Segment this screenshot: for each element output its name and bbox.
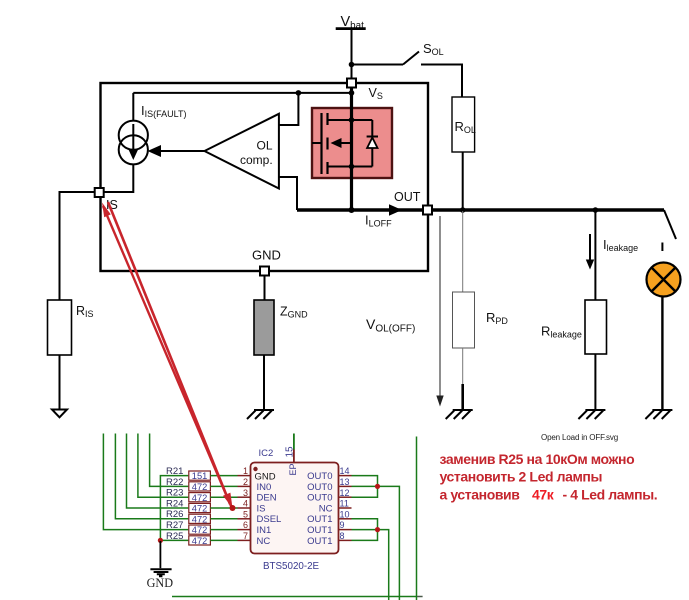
svg-text:47к: 47к (532, 487, 555, 503)
node VS square (347, 79, 356, 88)
svg-text:4: 4 (243, 499, 248, 509)
SCHEMATIC-TOP (48, 14, 681, 442)
svg-text:472: 472 (192, 493, 208, 503)
wire R24 to pin4 (210, 507, 237, 509)
svg-text:472: 472 (192, 536, 208, 546)
pin name OUT0 c (307, 493, 332, 504)
svg-text:R22: R22 (166, 477, 183, 488)
svg-text:12: 12 (340, 488, 350, 498)
svg-text:Open Load in OFF.svg: Open Load in OFF.svg (541, 433, 618, 442)
pin name GND (255, 472, 276, 483)
pin number 6 (243, 520, 248, 530)
note line 3 (440, 487, 658, 503)
pin name IS (257, 503, 266, 514)
svg-text:IN0: IN0 (257, 482, 272, 493)
wire GND to ZGND (264, 276, 266, 301)
wire IS to RIS (60, 192, 95, 300)
svg-text:OUT: OUT (394, 190, 421, 204)
resistor ROL (452, 97, 475, 152)
junction OUT0 net (375, 484, 380, 489)
body diode triangle (367, 138, 377, 149)
op-amp OL comparator (205, 114, 279, 189)
resistor R27 (189, 525, 211, 534)
current source IIS(FAULT) label (141, 103, 186, 119)
junction VS/OUT (349, 207, 355, 213)
wire to switch SOL (352, 64, 404, 66)
wire OUT to RPD thin (462, 211, 464, 292)
pin number 8 (340, 531, 345, 541)
resistor R23 label (166, 488, 183, 499)
pin name IN0 (257, 482, 272, 493)
wire R25 to pin7 (210, 539, 237, 541)
wire OUT to Rleakage (594, 210, 596, 300)
svg-text:ZGND: ZGND (280, 305, 308, 320)
pin number 3 (243, 488, 248, 498)
svg-text:OUT1: OUT1 (307, 514, 332, 525)
pin name NC right (319, 503, 333, 514)
current Ileakage arrowhead (586, 260, 594, 270)
pin name NC left (257, 536, 271, 547)
svg-text:R27: R27 (166, 520, 183, 531)
lamp cross (652, 268, 675, 291)
impedance ZGND label (280, 305, 308, 320)
junction OUT1 net (375, 527, 380, 532)
svg-text:NC: NC (257, 536, 271, 547)
svg-text:R21: R21 (166, 466, 183, 477)
resistor RIS label (76, 304, 94, 319)
voltage VOL(OFF) arrowhead (436, 396, 443, 407)
body diode cathode bar (367, 136, 378, 138)
svg-text:151: 151 (192, 471, 208, 481)
junction pin4 red dot (230, 505, 236, 511)
transistor body wire (340, 142, 352, 144)
pin number 4 (243, 499, 248, 509)
svg-text:R26: R26 (166, 509, 183, 520)
resistor Rleakage (585, 300, 607, 354)
pin name OUT1 c (307, 536, 332, 547)
red arrowhead at IS (102, 203, 111, 218)
red arrowhead at pin4 (223, 493, 233, 508)
current Ileakage label (603, 237, 638, 253)
wire OUT0 tie pins 14-12 (352, 476, 378, 498)
pin number 1 (243, 466, 248, 476)
pin 12 stub (339, 496, 352, 498)
wire GND net R21/R25 (160, 476, 188, 541)
resistor RPD label (486, 310, 508, 326)
svg-text:13: 13 (340, 477, 350, 487)
svg-text:10: 10 (340, 509, 350, 519)
current source arrow (132, 124, 134, 151)
resistor Rleakage label (541, 324, 582, 340)
pin 7 stub (238, 539, 251, 541)
switch lamp contact stub (661, 243, 663, 252)
wire bus net R22 (150, 434, 189, 487)
note line 2 (440, 469, 603, 485)
wire bottom end segment (417, 596, 423, 598)
resistor R26 (189, 514, 211, 523)
transistor gate stub (312, 142, 322, 144)
current source circle lower (119, 135, 148, 164)
wire ROL to OUT line (462, 152, 464, 210)
pin number 12 (340, 488, 350, 498)
pin 5 stub (238, 518, 251, 520)
svg-text:RIS: RIS (76, 304, 94, 319)
resistor R23 (189, 493, 211, 502)
svg-text:OL: OL (257, 139, 273, 153)
supply Vbat label (341, 14, 365, 31)
junction GND net (158, 538, 163, 543)
svg-text:9: 9 (340, 520, 345, 530)
wire lamp to ground (661, 297, 663, 411)
pin 14 stub (339, 475, 352, 477)
resistor R27 label (166, 520, 183, 531)
red arrow up to node IS (103, 206, 233, 510)
svg-text:R25: R25 (166, 531, 183, 542)
pin name OUT1 a (307, 514, 332, 525)
label GND pin (252, 248, 281, 263)
svg-text:DSEL: DSEL (257, 514, 282, 525)
pin number 11 (340, 499, 349, 509)
pin number 10 (340, 509, 350, 519)
svg-text:5: 5 (243, 509, 248, 519)
junction drain/VS (349, 117, 355, 123)
wire OUT1 tie pins 10-8 (352, 519, 378, 541)
svg-text:IS: IS (257, 503, 266, 514)
voltage VOL(OFF) label (366, 316, 415, 335)
svg-text:GND: GND (252, 248, 281, 263)
svg-text:OUT0: OUT0 (307, 493, 332, 504)
transistor source wire (328, 166, 373, 168)
ground earth lamp (645, 410, 672, 419)
pin 15 number label (285, 446, 296, 458)
svg-text:а установив: а установив (440, 487, 521, 503)
svg-text:R24: R24 (166, 498, 183, 509)
svg-text:14: 14 (340, 466, 350, 476)
label IS (106, 198, 118, 212)
pin 10 stub (339, 518, 352, 520)
svg-text:NC: NC (319, 503, 333, 514)
switch lamp blade (664, 210, 676, 239)
note line 1 (440, 451, 635, 467)
resistor RPD (453, 292, 475, 348)
wire bus net R26 (115, 434, 188, 519)
pin 2 stub (238, 485, 251, 487)
node OUT square (423, 206, 432, 215)
resistor R22 label (166, 477, 183, 488)
svg-text:2: 2 (243, 477, 248, 487)
wire internal top rail (133, 92, 351, 94)
ground earth ZGND (247, 410, 274, 419)
resistor R21 (189, 471, 211, 480)
pin 1 stub (238, 475, 251, 477)
pin 9 stub (339, 529, 352, 531)
pin name DSEL (257, 514, 282, 525)
svg-text:IIS(FAULT): IIS(FAULT) (141, 103, 186, 119)
impedance ZGND (254, 300, 274, 355)
wire R23 to pin3 (210, 496, 237, 498)
switch SOL blade (403, 52, 419, 65)
resistor R26 label (166, 509, 183, 520)
junction source/VS (349, 164, 355, 170)
pin 3 stub (238, 496, 251, 498)
svg-text:- 4 Led лампы.: - 4 Led лампы. (563, 487, 658, 503)
pin number 5 (243, 509, 248, 519)
ground earth Rleakage (578, 410, 605, 419)
transistor drain wire (328, 119, 373, 121)
svg-text:установить 2 Led лампы: установить 2 Led лампы (440, 469, 603, 485)
current source arrowhead (129, 150, 139, 161)
wire RIS to ground (59, 355, 61, 410)
switch SOL label (423, 41, 444, 57)
svg-text:ILOFF: ILOFF (365, 213, 392, 229)
ground GND symbol (150, 569, 171, 576)
svg-text:GND: GND (147, 576, 174, 590)
comparator output arrowhead (148, 145, 162, 157)
IC outline box (101, 83, 429, 271)
wire comparator output (158, 150, 205, 152)
svg-text:472: 472 (192, 525, 208, 535)
pin 15 EP stub (293, 450, 295, 463)
resistor R25 (189, 536, 211, 545)
svg-text:3: 3 (243, 488, 248, 498)
svg-text:заменив R25 на 10кОм можно: заменив R25 на 10кОм можно (440, 451, 635, 467)
wire bottom horizontal (172, 596, 417, 598)
part number BTS5020-2E (263, 561, 320, 572)
resistor R24 (189, 503, 211, 512)
svg-text:EP: EP (288, 463, 298, 475)
IC2 pin1 mark (253, 467, 257, 471)
pin number 2 (243, 477, 248, 487)
current Ileakage arrow (589, 234, 591, 261)
svg-text:IN1: IN1 (257, 525, 272, 536)
wire ZGND to ground (263, 355, 265, 410)
resistor R22 (189, 482, 211, 491)
wire to GND symbol (159, 541, 161, 568)
current ILOFF label (365, 213, 392, 229)
svg-text:8: 8 (340, 531, 345, 541)
resistor R25 label (166, 531, 183, 542)
IC U IC2 body (251, 463, 339, 554)
label OUT (394, 190, 421, 204)
pin name IN1 (257, 525, 272, 536)
svg-text:Ileakage: Ileakage (603, 237, 638, 253)
supply Vbat bar (336, 27, 366, 30)
IC2 reference label (259, 448, 274, 459)
svg-text:OUT0: OUT0 (307, 482, 332, 493)
red arrow down to pin4 IS (108, 202, 230, 504)
wire net OUT1 pin9 (352, 530, 389, 600)
pin number 9 (340, 520, 345, 530)
wire R26 to pin5 (210, 518, 237, 520)
node IS square (95, 188, 104, 197)
SCHEMATIC-BOTTOM (103, 434, 422, 600)
pin 4 stub (238, 507, 251, 509)
svg-text:11: 11 (340, 499, 349, 509)
transistor gate line (320, 113, 322, 174)
svg-text:SOL: SOL (423, 41, 444, 57)
wire SOL to ROL (421, 65, 462, 99)
transistor body arrowhead (331, 138, 342, 148)
svg-text:comp.: comp. (240, 153, 273, 167)
current ILOFF arrowhead (389, 204, 402, 216)
wire R21 to pin1 (210, 475, 237, 477)
pin 13 stub (339, 485, 352, 487)
svg-text:RPD: RPD (486, 310, 508, 326)
label GND net (147, 576, 174, 590)
wire R22 to pin2 (210, 485, 237, 487)
wire pin15 up (293, 434, 295, 450)
pin name OUT0 a (307, 471, 332, 482)
wire R27 to pin6 (210, 529, 237, 531)
svg-text:DEN: DEN (257, 493, 277, 504)
svg-text:472: 472 (192, 482, 208, 492)
svg-text:IC2: IC2 (259, 448, 274, 459)
transistor channel dashes (326, 113, 328, 174)
pin name OUT0 b (307, 482, 332, 493)
wire OUT line (297, 208, 664, 211)
svg-text:472: 472 (192, 514, 208, 524)
resistor ROL label (455, 119, 476, 135)
resistor RIS (48, 300, 72, 355)
wire rail to current source (132, 93, 134, 121)
wire bus net R23 (138, 434, 188, 498)
ground earth RPD (446, 410, 473, 419)
caption Open Load in OFF.svg (541, 433, 618, 442)
svg-text:R23: R23 (166, 488, 183, 499)
svg-text:BTS5020-2E: BTS5020-2E (263, 561, 320, 572)
wire Rleakage to ground (594, 354, 596, 410)
svg-text:OUT0: OUT0 (307, 471, 332, 482)
wire right long vertical (416, 437, 418, 600)
wire net OUT0 pin13 (352, 486, 400, 600)
pin 8 stub (339, 539, 352, 541)
junction rail/comparator (296, 90, 302, 96)
junction Vbat/SOL (349, 62, 355, 68)
pin name EP (288, 463, 298, 475)
pin number 13 (340, 477, 350, 487)
svg-text:7: 7 (243, 531, 248, 541)
pin number 7 (243, 531, 248, 541)
pin number 14 (340, 466, 350, 476)
junction OUT/Rleakage (593, 207, 599, 213)
svg-text:472: 472 (192, 504, 208, 514)
wire comparator top input (279, 93, 299, 125)
node GND square (260, 267, 269, 276)
DMOS block (312, 108, 392, 178)
junction OUT/RPD (460, 207, 466, 213)
svg-text:6: 6 (243, 520, 248, 530)
pin 11 stub (339, 507, 352, 509)
svg-text:VOL(OFF): VOL(OFF) (366, 316, 415, 335)
ground triangle RIS (52, 410, 67, 418)
svg-text:Rleakage: Rleakage (541, 324, 582, 340)
resistor R21 label (166, 466, 183, 477)
wire Vbat to VS node (351, 29, 353, 79)
wire RPD to ground (461, 384, 464, 410)
svg-text:VS: VS (369, 86, 383, 101)
wire comparator bottom input (279, 177, 297, 210)
svg-text:1: 1 (243, 466, 248, 476)
label VS (369, 86, 383, 101)
svg-text:OUT1: OUT1 (307, 536, 332, 547)
lamp bulb (647, 263, 681, 297)
pin 6 stub (238, 529, 251, 531)
svg-text:OUT1: OUT1 (307, 525, 332, 536)
wire bus net R24 (127, 434, 189, 509)
pin name OUT1 b (307, 525, 332, 536)
resistor R24 label (166, 498, 183, 509)
wire VS power vertical (350, 88, 353, 212)
wire bus net R27 (103, 434, 188, 530)
wire current source to IS node (103, 164, 133, 192)
voltage VOL(OFF) arrow line (439, 216, 441, 399)
wire RPD lower thin (462, 348, 464, 384)
body diode branch wires (371, 120, 373, 167)
junction rail/VS (349, 90, 355, 96)
op-amp OL comparator label (240, 139, 273, 168)
current source circle upper (119, 121, 148, 150)
pin name DEN (257, 493, 277, 504)
